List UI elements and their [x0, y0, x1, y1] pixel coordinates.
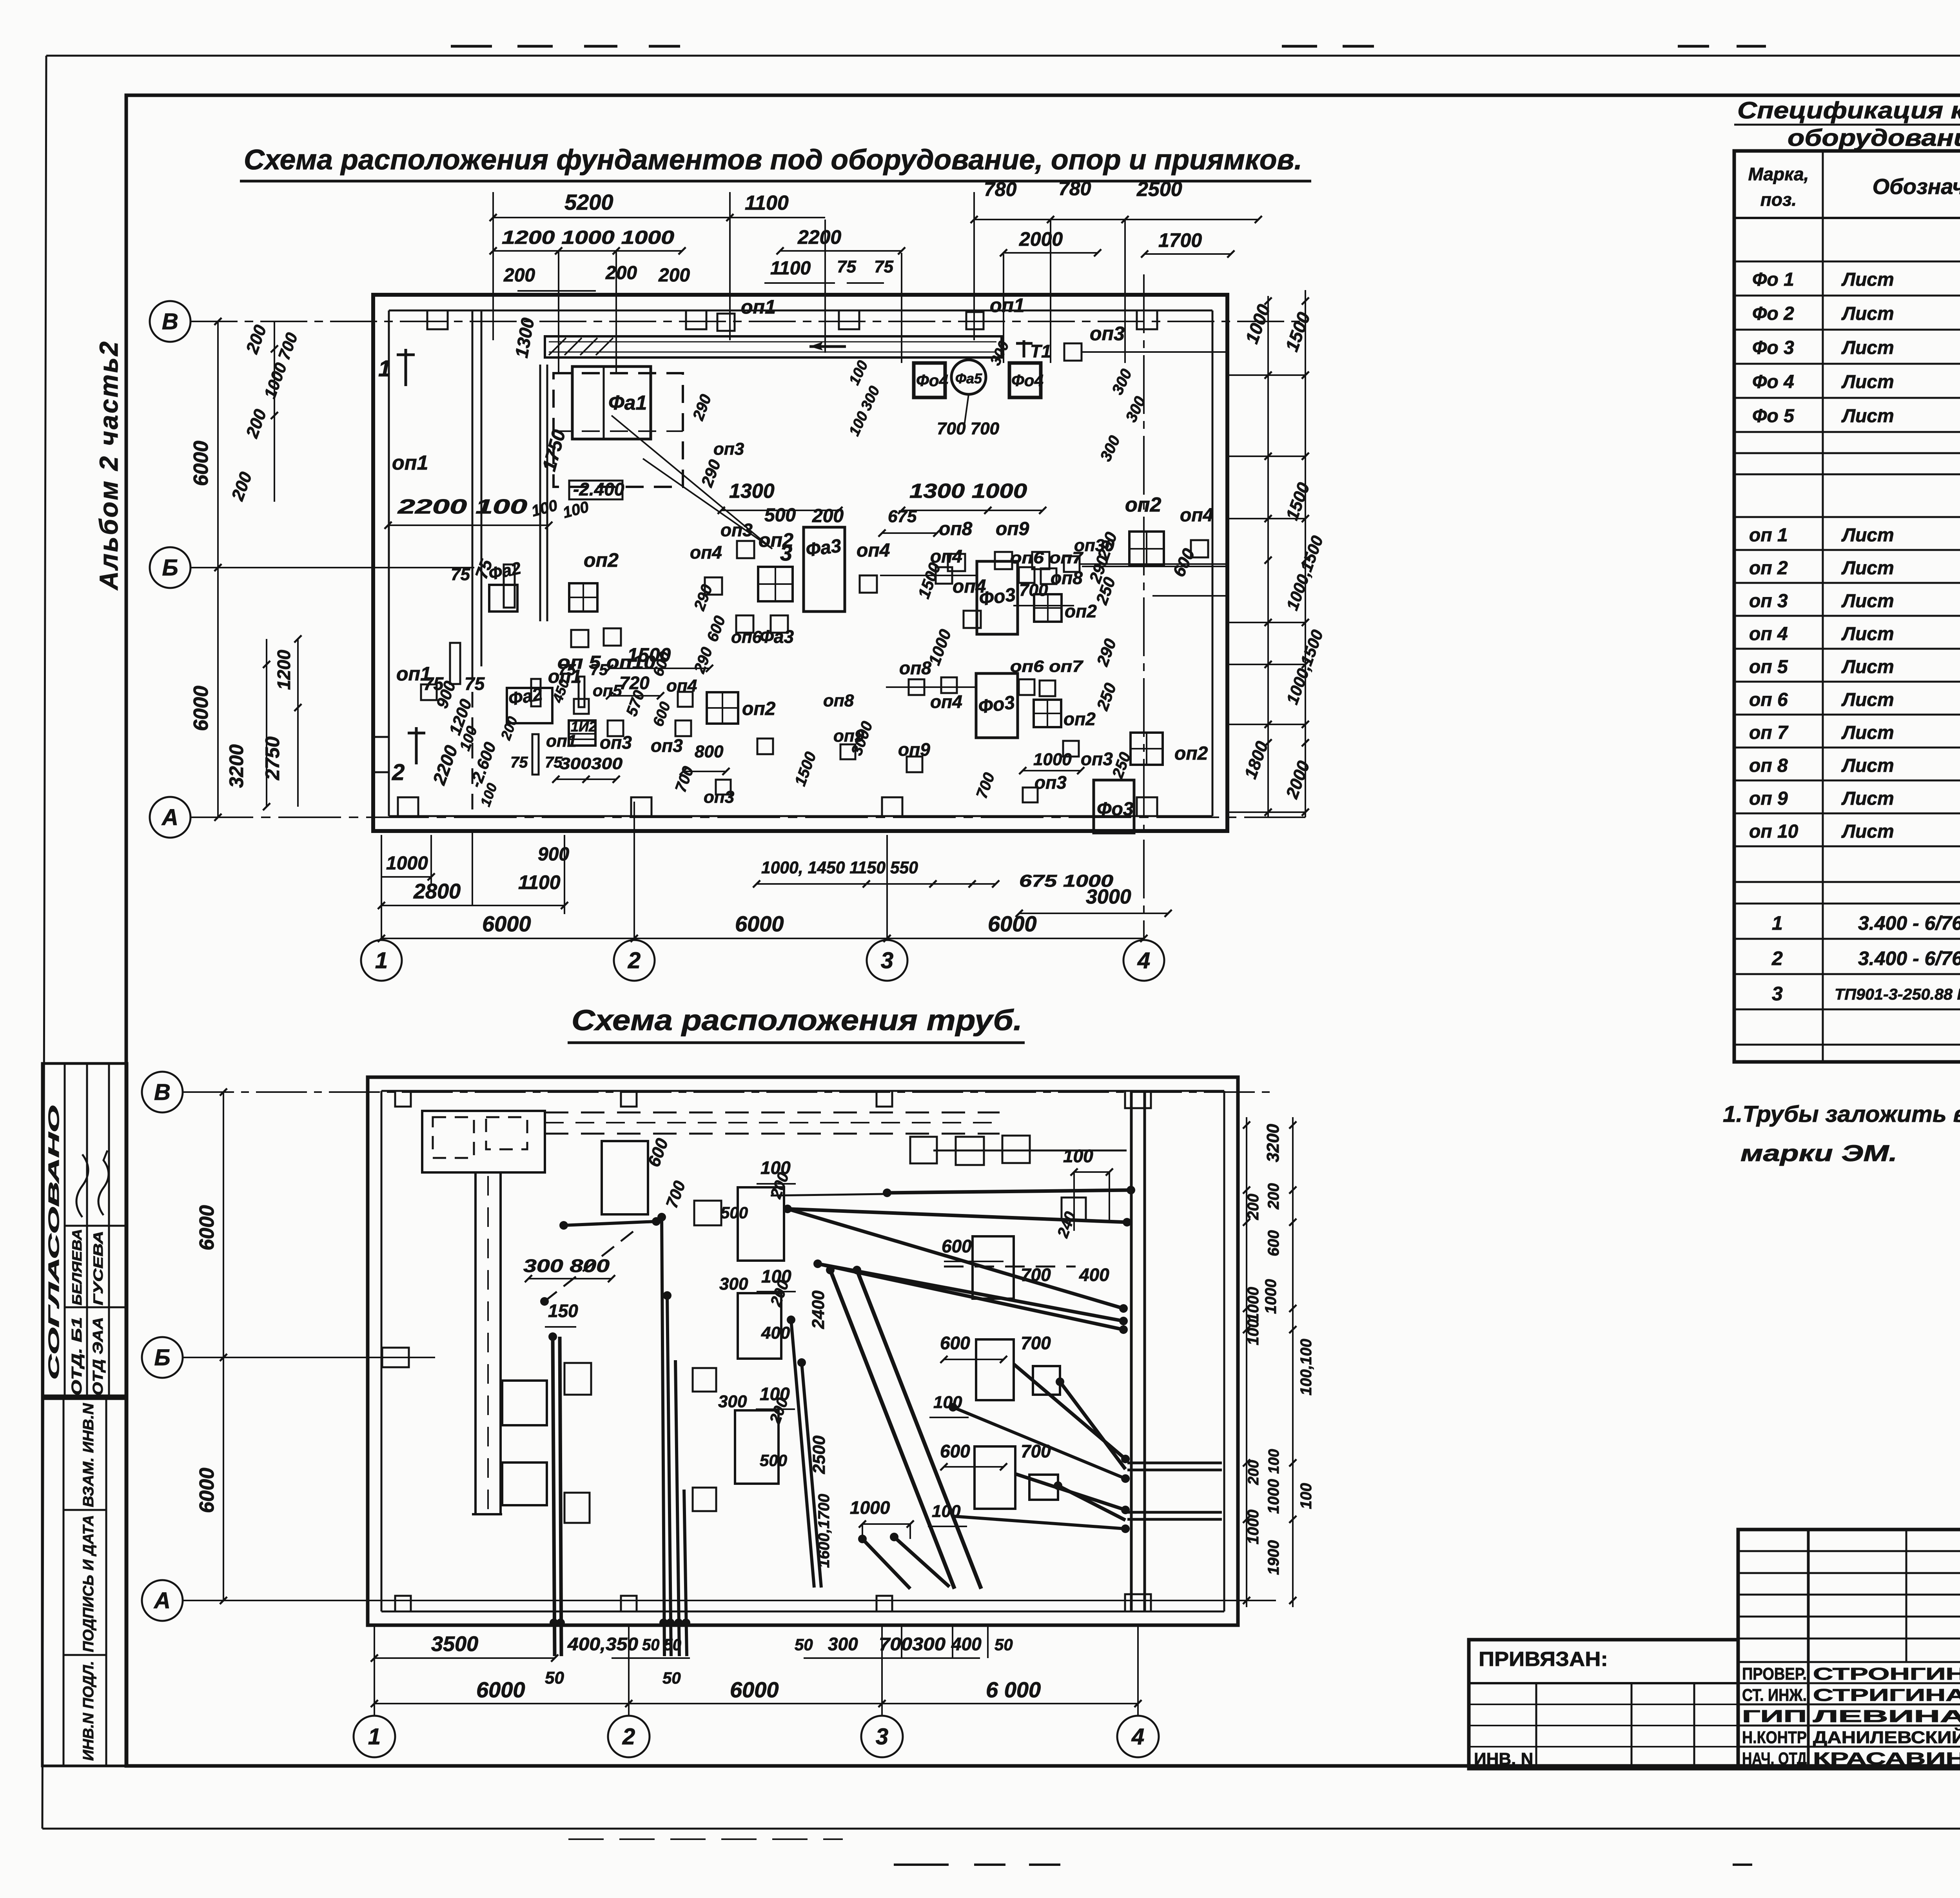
droppers below axis A right [901, 1625, 902, 1658]
second chain dims 1200 1000 1000 [493, 250, 682, 252]
svg-text:300: 300 [828, 1634, 858, 1654]
svg-text:6000: 6000 [988, 911, 1037, 936]
through-wall pipe pair upper [1127, 1462, 1222, 1464]
svg-text:2200 100: 2200 100 [397, 495, 527, 518]
pipes from right rects to col4 middle [1014, 1364, 1125, 1459]
svg-text:2000: 2000 [1019, 228, 1063, 250]
svg-text:6000: 6000 [735, 911, 784, 936]
foundation Fa3 center row2 [976, 673, 1018, 738]
svg-text:оп 1: оп 1 [1749, 525, 1788, 546]
axis circle A lower plan [142, 1580, 183, 1621]
svg-text:Фо 1: Фо 1 [1752, 269, 1794, 290]
pipe line from squares to col4 top [933, 1150, 1127, 1152]
svg-text:Схема расположения труб.: Схема расположения труб. [572, 1004, 1022, 1036]
stamp box inv-n block [42, 1399, 127, 1766]
dim chains right edge upper plan [1267, 296, 1269, 817]
pipes near-vertical left pair [791, 1320, 814, 1588]
equipment rect R3 lower plan [738, 1293, 781, 1359]
spec row detail 3 [1734, 1009, 1960, 1011]
svg-text:Фо4: Фо4 [1011, 371, 1044, 390]
spec row оп5 [1734, 681, 1960, 683]
svg-text:200: 200 [812, 506, 844, 526]
svg-text:ГУСЕВА: ГУСЕВА [91, 1231, 106, 1305]
horizontal tie lines right of plan [1227, 374, 1305, 376]
svg-text:оп 8: оп 8 [1749, 755, 1788, 776]
svg-text:оп9: оп9 [996, 519, 1029, 539]
svg-text:НАЧ. ОТД: НАЧ. ОТД [1742, 1749, 1807, 1768]
svg-text:оп1: оп1 [990, 294, 1025, 316]
svg-text:оп3: оп3 [1090, 323, 1125, 345]
stamp signatures vertical [76, 1154, 88, 1217]
svg-text:780: 780 [1058, 178, 1091, 200]
svg-text:4: 4 [1131, 1724, 1144, 1749]
spec table outer box [1734, 151, 1960, 1062]
svg-text:600: 600 [1265, 1230, 1282, 1256]
pipe fan upper right [788, 1209, 1127, 1222]
small square S3 lower plan [693, 1488, 716, 1511]
svg-text:500: 500 [720, 1203, 748, 1222]
column line 3 upper plan [886, 835, 888, 940]
svg-text:поз.: поз. [1760, 189, 1797, 210]
svg-text:3: 3 [876, 1724, 888, 1749]
small square S1 lower plan [694, 1201, 721, 1225]
column line 4 upper plan [1143, 274, 1145, 940]
support op3 row3 pair [1063, 741, 1079, 757]
column line 2 lower plan [628, 1625, 630, 1716]
channel vertical lower plan [474, 1172, 477, 1514]
spec table column lines [1822, 151, 1824, 1062]
arrow in collector strip [809, 345, 846, 348]
svg-text:оп2: оп2 [1125, 494, 1161, 516]
svg-text:75: 75 [451, 565, 470, 584]
svg-text:В: В [154, 1080, 171, 1105]
dashed section line through R5 [944, 1266, 1076, 1268]
subheader line under Fundamenty [1734, 261, 1960, 263]
svg-text:6000: 6000 [482, 911, 531, 936]
svg-text:Лист: Лист [1841, 525, 1894, 546]
dim 720 center [610, 695, 661, 697]
svg-text:300: 300 [718, 1392, 747, 1411]
svg-text:1200 1000 1000: 1200 1000 1000 [502, 227, 674, 248]
svg-text:оп1: оп1 [396, 663, 431, 685]
spec row Фо4 [1734, 397, 1960, 399]
svg-text:75: 75 [558, 661, 576, 679]
right rect R6 lower plan [976, 1339, 1014, 1400]
spec row Фо5 [1734, 431, 1960, 433]
column stub on axis B lower plan [382, 1348, 409, 1367]
svg-text:оп4: оп4 [930, 546, 962, 566]
svg-text:Т1: Т1 [1030, 341, 1051, 361]
svg-text:600: 600 [940, 1333, 970, 1353]
leader line to detail 3 [612, 416, 772, 549]
pipe thin long top lower plan [771, 1194, 884, 1196]
second chain dim 2200 [780, 250, 902, 252]
vertical dim lines from top chains [729, 192, 731, 340]
empty rows after foundations [1734, 452, 1960, 454]
left dimension chain upper plan [217, 321, 219, 817]
spec table title underline [1734, 124, 1960, 126]
svg-text:300: 300 [719, 1274, 748, 1294]
svg-text:Фо4: Фо4 [916, 371, 948, 390]
svg-text:Лист: Лист [1841, 591, 1894, 611]
equipment rect R1 lower plan [602, 1141, 648, 1214]
right small square S7 [1029, 1475, 1058, 1500]
svg-text:6000: 6000 [196, 1468, 218, 1513]
svg-text:Обозначение: Обозначение [1873, 174, 1960, 199]
svg-text:100: 100 [1266, 1449, 1282, 1474]
svg-text:оп4: оп4 [857, 540, 890, 561]
three squares top right lower plan [910, 1137, 937, 1163]
section mark T1 [1023, 340, 1025, 357]
svg-text:300300: 300300 [560, 754, 622, 773]
svg-text:900: 900 [538, 844, 569, 865]
foundation Fa1 [572, 367, 651, 439]
svg-text:оп2: оп2 [742, 699, 776, 719]
svg-text:В: В [162, 309, 178, 334]
spec row оп4 [1734, 648, 1960, 650]
svg-text:ОТД ЭАА: ОТД ЭАА [90, 1317, 106, 1395]
svg-text:ПРИВЯЗАН:: ПРИВЯЗАН: [1479, 1648, 1608, 1671]
spec row оп1 [1734, 549, 1960, 551]
axis circle 1 lower plan [354, 1716, 395, 1757]
dropper lines to sub chains [430, 835, 432, 885]
right rect R7 lower plan [975, 1446, 1015, 1509]
svg-text:1: 1 [1772, 912, 1783, 934]
svg-text:оп1: оп1 [741, 296, 776, 318]
svg-text:1: 1 [375, 948, 388, 973]
pipes steep diagonals lower plan [830, 1270, 955, 1589]
column line 1 upper plan [381, 835, 382, 940]
svg-text:Лист: Лист [1841, 338, 1894, 358]
svg-text:оп 5: оп 5 [1749, 657, 1788, 677]
svg-text:400: 400 [1079, 1265, 1109, 1285]
svg-text:оп 6: оп 6 [1749, 690, 1788, 710]
column line 2 upper plan [633, 802, 635, 940]
axis circle 4 lower plan [1117, 1716, 1159, 1757]
column line 1 lower plan [374, 1625, 375, 1716]
svg-text:оп3: оп3 [704, 788, 734, 807]
svg-text:Лист: Лист [1841, 690, 1894, 710]
top chain dim 5200 [493, 217, 730, 218]
axis circle 2 lower plan [608, 1716, 650, 1757]
spec row оп6 [1734, 714, 1960, 716]
bottom dimension chain 6000 upper plan [381, 938, 1144, 939]
svg-text:100,100: 100,100 [1298, 1339, 1315, 1395]
axis circle 2 upper plan [614, 940, 655, 981]
svg-text:Лист: Лист [1841, 722, 1894, 743]
svg-text:Лист: Лист [1841, 558, 1894, 579]
svg-text:ДАНИЛЕВСКИЙ: ДАНИЛЕВСКИЙ [1813, 1727, 1960, 1747]
svg-text:800: 800 [695, 742, 724, 761]
axis circle V lower plan [142, 1072, 183, 1112]
interior wall vertical pair upper plan [472, 310, 474, 666]
pipes vertical near column 2 [662, 1217, 664, 1656]
svg-text:оп3: оп3 [1034, 772, 1067, 793]
small square S2 lower plan [693, 1368, 716, 1392]
spec row оп9 [1734, 813, 1960, 815]
svg-text:оп6 оп7: оп6 оп7 [1010, 548, 1083, 567]
svg-text:СТРОНГИН: СТРОНГИН [1813, 1664, 1960, 1684]
svg-text:5200: 5200 [564, 190, 613, 214]
spec row оп7 [1734, 747, 1960, 749]
svg-text:Фо 4: Фо 4 [1752, 372, 1794, 392]
section mark 2T lower left [415, 727, 418, 764]
svg-text:2: 2 [1771, 947, 1783, 969]
collector strip upper plan [545, 336, 1002, 357]
svg-text:Фа5: Фа5 [955, 370, 982, 386]
svg-text:2800: 2800 [413, 880, 461, 903]
pipes bottom fan near col3 [862, 1539, 910, 1589]
wall stubs lower plan [395, 1091, 411, 1107]
spec table bottom line [1734, 1060, 1960, 1064]
svg-text:200: 200 [1245, 1460, 1262, 1485]
svg-text:Фо3: Фо3 [1097, 799, 1134, 820]
svg-text:3500: 3500 [431, 1632, 478, 1656]
svg-text:75: 75 [837, 257, 856, 276]
svg-text:Лист: Лист [1841, 303, 1894, 324]
pipe long horizontal lower plan [887, 1190, 1131, 1193]
svg-text:СТ. ИНЖ.: СТ. ИНЖ. [1742, 1686, 1807, 1705]
signature rows lines [1738, 1682, 1960, 1684]
axis circle B upper plan [150, 547, 191, 588]
svg-text:75: 75 [465, 673, 485, 694]
svg-text:Фа3: Фа3 [760, 626, 794, 647]
svg-text:400: 400 [761, 1323, 790, 1343]
svg-text:Лист: Лист [1841, 372, 1894, 392]
svg-text:оп6 оп7: оп6 оп7 [1010, 657, 1083, 675]
svg-text:1000, 1450 1150 550: 1000, 1450 1150 550 [761, 858, 918, 877]
svg-text:1И2: 1И2 [571, 719, 597, 735]
spec row Фо3 [1734, 363, 1960, 365]
equipment rect R2 lower plan [738, 1187, 784, 1261]
svg-text:400,350: 400,350 [567, 1634, 639, 1654]
svg-text:6000: 6000 [190, 686, 212, 731]
axis line B lower plan [183, 1357, 435, 1358]
svg-text:6000: 6000 [190, 441, 212, 486]
axis circle 3 upper plan [867, 940, 907, 981]
svg-text:1000: 1000 [850, 1497, 890, 1518]
svg-text:оп3: оп3 [713, 439, 744, 459]
svg-text:100: 100 [1298, 1483, 1315, 1509]
svg-text:Лист: Лист [1841, 624, 1894, 644]
svg-text:700 700: 700 700 [937, 419, 1000, 438]
top chain dims 780 780 2500 [974, 219, 1258, 220]
svg-text:3000: 3000 [1086, 885, 1131, 908]
axis line A lower plan [183, 1600, 1276, 1601]
svg-text:500: 500 [760, 1451, 787, 1470]
axis line B upper plan [191, 567, 474, 568]
svg-text:ПОДПИСЬ И ДАТА: ПОДПИСЬ И ДАТА [80, 1515, 97, 1652]
svg-text:100: 100 [932, 1502, 961, 1521]
support op3 right of T1 [1064, 343, 1082, 361]
svg-text:-2.400: -2.400 [573, 479, 624, 499]
stamp box soglasovano [42, 1063, 127, 1396]
scan dash line above bottom edge [568, 1838, 843, 1840]
svg-text:оборудование опор и приямков.: оборудование опор и приямков. [1788, 125, 1960, 151]
svg-text:3: 3 [881, 948, 893, 973]
svg-text:200: 200 [503, 265, 535, 286]
svg-text:СТРИГИНА: СТРИГИНА [1813, 1686, 1960, 1705]
svg-text:Лист: Лист [1841, 657, 1894, 677]
small square S5 lower plan [564, 1493, 590, 1523]
pipes vertical pair at 1410 [553, 1337, 555, 1656]
axis circle V upper plan [150, 301, 191, 342]
bottom sub chain lower plan [374, 1657, 555, 1659]
privyazan box [1469, 1640, 1738, 1769]
svg-text:50 50: 50 50 [642, 1635, 681, 1654]
svg-text:1100: 1100 [518, 871, 561, 893]
svg-text:оп3: оп3 [651, 735, 683, 756]
svg-text:2: 2 [622, 1724, 635, 1749]
svg-text:оп2: оп2 [759, 529, 793, 551]
channel head box lower plan [422, 1111, 545, 1172]
svg-text:Фа1: Фа1 [608, 392, 647, 414]
equipment op2 row2 [1034, 700, 1061, 727]
svg-text:оп2: оп2 [1063, 709, 1096, 729]
empty row before table bottom [1734, 1044, 1960, 1046]
svg-text:марки ЭМ.: марки ЭМ. [1740, 1141, 1897, 1166]
column line 3 lower plan [881, 1625, 883, 1716]
svg-text:КРАСАВИН: КРАСАВИН [1813, 1749, 1960, 1768]
bottom sub chain right part [804, 1657, 980, 1659]
svg-text:оп 7: оп 7 [1749, 722, 1789, 743]
svg-text:50: 50 [795, 1635, 813, 1654]
second chain dim 2000 [1004, 252, 1098, 254]
spec row оп2 [1734, 582, 1960, 584]
support op2 small mid [757, 739, 773, 754]
axis line V upper plan [191, 321, 1305, 322]
scan dashes bottom [894, 1864, 949, 1866]
svg-text:ГИП: ГИП [1742, 1707, 1807, 1726]
right edge dim lines lower plan [1246, 1117, 1247, 1607]
svg-text:75: 75 [590, 661, 608, 679]
right small square S6 [1033, 1366, 1060, 1395]
supports op6 fa3 row [736, 615, 753, 633]
spec row оп8 [1734, 780, 1960, 782]
axis line V lower plan [183, 1091, 1276, 1093]
pipes from right rects to col4 lower [1015, 1474, 1125, 1510]
svg-text:ВЗАМ. ИНВ.N: ВЗАМ. ИНВ.N [80, 1403, 97, 1507]
svg-text:600: 600 [940, 1441, 970, 1461]
svg-text:700: 700 [1021, 1333, 1051, 1353]
svg-text:Спецификация к схеме расположе: Спецификация к схеме расположения фундам… [1737, 97, 1960, 123]
svg-text:6000: 6000 [196, 1205, 218, 1250]
svg-text:2200: 2200 [797, 226, 841, 248]
svg-text:Лист: Лист [1841, 269, 1894, 290]
svg-text:1100: 1100 [770, 258, 811, 279]
svg-text:2: 2 [628, 948, 641, 973]
svg-text:100: 100 [933, 1393, 962, 1412]
svg-text:600: 600 [942, 1236, 972, 1256]
svg-text:3200: 3200 [1263, 1124, 1283, 1162]
building outline upper plan [373, 295, 1227, 831]
spec row detail 1 [1734, 938, 1960, 940]
building outline lower plan [368, 1077, 1238, 1625]
svg-text:500: 500 [764, 505, 796, 526]
post op1 lower-left [532, 734, 539, 775]
second chain dim 1700 [1145, 253, 1231, 255]
right rect R5 lower plan [973, 1236, 1014, 1299]
svg-text:150: 150 [548, 1301, 578, 1321]
svg-text:1000: 1000 [1262, 1279, 1279, 1314]
dim 1500 center [610, 668, 710, 669]
svg-text:6 000: 6 000 [986, 1677, 1041, 1702]
svg-text:ИНВ.N ПОДЛ.: ИНВ.N ПОДЛ. [80, 1661, 97, 1761]
svg-text:БЕЛЯЕВА: БЕЛЯЕВА [70, 1229, 85, 1305]
axis circle 4 upper plan [1123, 940, 1164, 981]
side boxes on channel row2 [502, 1463, 547, 1505]
svg-text:Марка,: Марка, [1748, 164, 1809, 184]
svg-text:400: 400 [951, 1634, 982, 1654]
svg-text:оп8: оп8 [899, 658, 931, 678]
bottom sub dimension chain upper plan [381, 905, 564, 906]
spec row Фо1 [1734, 295, 1960, 297]
svg-text:оп2: оп2 [584, 549, 619, 571]
foundation Fa2 lower box [507, 688, 552, 723]
svg-text:1000: 1000 [1033, 750, 1072, 769]
axis circle 1 upper plan [361, 940, 402, 981]
svg-text:оп6: оп6 [731, 628, 762, 647]
svg-text:780: 780 [984, 178, 1017, 200]
svg-text:оп4: оп4 [930, 691, 962, 712]
svg-text:75: 75 [510, 754, 528, 771]
foundation Fa4 left [914, 363, 945, 397]
svg-text:2500: 2500 [809, 1435, 829, 1474]
svg-text:75: 75 [874, 257, 893, 276]
building inner wall faces upper plan [389, 310, 1212, 312]
axis line A upper plan [191, 817, 1305, 818]
svg-text:1300: 1300 [729, 480, 775, 503]
svg-text:Б: Б [154, 1345, 170, 1370]
svg-text:1700: 1700 [1158, 229, 1202, 251]
svg-text:1: 1 [378, 356, 391, 381]
svg-text:2500: 2500 [1136, 178, 1182, 201]
svg-text:ОТД. Б1: ОТД. Б1 [69, 1317, 85, 1395]
equipment op2 center-right [707, 692, 738, 724]
svg-text:Схема расположения фундаментов: Схема расположения фундаментов под обору… [244, 144, 1302, 176]
spec table header row line [1734, 217, 1960, 219]
svg-text:1000: 1000 [386, 853, 428, 874]
svg-text:Н.КОНТР: Н.КОНТР [1742, 1728, 1807, 1747]
svg-text:3.400 - 6/76: 3.400 - 6/76 [1858, 947, 1960, 969]
svg-text:А: А [153, 1588, 171, 1613]
support op1 on wall right [966, 312, 984, 329]
spec row оп3 [1734, 615, 1960, 617]
svg-text:оп 2: оп 2 [1749, 558, 1788, 579]
equipment rect R4 lower plan [735, 1410, 779, 1484]
section mark 1T upper left [405, 349, 407, 386]
svg-text:оп 4: оп 4 [1749, 624, 1788, 644]
title block grid verticals [1807, 1530, 1810, 1769]
dim 600 cluster4 [1152, 595, 1227, 597]
dashed channel horizontal lower plan [545, 1112, 1000, 1114]
svg-text:оп3: оп3 [720, 520, 753, 540]
svg-text:1000: 1000 [1265, 1479, 1282, 1514]
title block blank grid rows [1738, 1550, 1960, 1552]
svg-text:оп 3: оп 3 [1749, 591, 1788, 611]
svg-text:Фо 5: Фо 5 [1752, 406, 1795, 426]
support op1 on wall left [717, 314, 735, 331]
svg-text:оп1: оп1 [392, 452, 428, 474]
foundation Fa3 top [804, 527, 845, 611]
svg-text:А: А [161, 805, 178, 830]
svg-text:200: 200 [658, 265, 690, 286]
svg-text:Лист: Лист [1841, 821, 1894, 842]
svg-text:Б: Б [162, 555, 178, 581]
svg-text:3200: 3200 [225, 744, 247, 788]
scan dashes top edge [451, 45, 492, 48]
equipment op2 cluster5 [1131, 733, 1163, 765]
